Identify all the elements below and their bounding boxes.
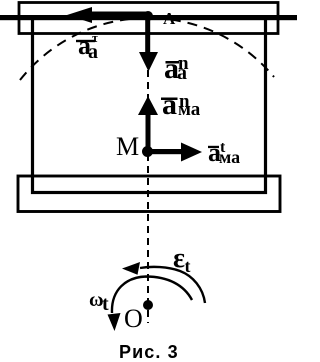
label omega: sub t: [102, 294, 109, 314]
label a_MA tangential: letter a: [208, 140, 221, 166]
omega curved arrow arc: [108, 277, 193, 332]
label a_a normal: sub a: [177, 63, 187, 83]
trajectory dashed arc of point A: [20, 18, 274, 80]
label a_MA tangential: sup t: [220, 140, 225, 156]
label M: [116, 134, 139, 160]
dashed vertical axis line A-M-O: [147, 22, 149, 323]
label a_a tangential: sub a: [88, 42, 98, 62]
arrow a_a tangential: thick shaft left from A: [67, 7, 150, 23]
bottom crossbar outer rectangle: [18, 176, 280, 212]
epsilon curved arrow arc: [122, 262, 205, 303]
label a_MA normal: sub ma: [178, 100, 200, 119]
arrow a_MA normal: up toward A: [138, 96, 158, 152]
label a_MA normal: letter a: [162, 90, 177, 120]
top crossbar outer rectangle: [19, 3, 278, 34]
label A: [163, 10, 175, 27]
label a_a tangential: letter a: [78, 33, 91, 59]
label O: [124, 306, 143, 332]
label a_a normal: letter a: [164, 54, 179, 84]
label epsilon: letter: [173, 245, 185, 273]
horizontal rail line through A: [0, 15, 297, 20]
label a_MA normal: sup n: [179, 92, 190, 111]
label a_a tangential: sup tau: [92, 31, 98, 44]
point M dot: [142, 146, 153, 157]
label a_a normal: sup n: [178, 54, 189, 73]
overbar of label a_MA normal: [161, 98, 178, 101]
label omega: letter: [89, 290, 104, 310]
point O dot: [143, 300, 153, 310]
label a_MA tangential: sub ma: [219, 148, 240, 166]
overbar of label a_MA tangential: [208, 146, 219, 148]
arrow a_MA tangential: right from M: [150, 143, 202, 162]
overbar of label a_a tangential: [76, 40, 95, 42]
caption Puc. 3: [119, 343, 179, 361]
point A dot: [143, 11, 153, 21]
arrow a_a normal: down from A: [139, 16, 158, 72]
label epsilon: sub t: [185, 257, 191, 275]
frame body inner rectangle: [33, 18, 266, 193]
overbar of label a_a normal: [166, 61, 180, 64]
